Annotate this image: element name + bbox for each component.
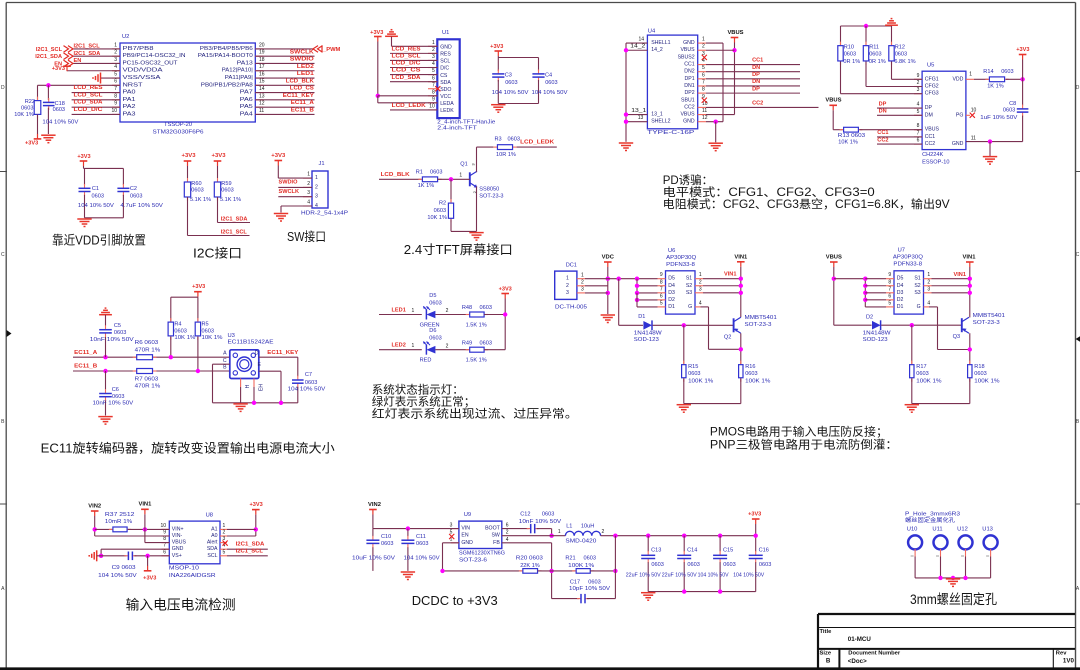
svg-text:R3: R3 — [495, 137, 502, 143]
svg-text:U5: U5 — [927, 63, 934, 69]
svg-text:G: G — [688, 304, 692, 310]
svg-text:+3V3: +3V3 — [143, 576, 156, 582]
svg-text:6: 6 — [660, 293, 663, 299]
svg-text:0R 1%: 0R 1% — [869, 59, 886, 65]
svg-text:LCD_BLK: LCD_BLK — [381, 172, 410, 178]
svg-text:R49: R49 — [462, 340, 472, 346]
svg-text:VIN2: VIN2 — [88, 504, 101, 510]
svg-text:5.1K 1%: 5.1K 1% — [190, 197, 211, 203]
svg-text:DN: DN — [752, 65, 760, 71]
svg-text:R22: R22 — [25, 99, 35, 105]
svg-text:电平模式：CFG1、CFG2、CFG3=0: 电平模式：CFG1、CFG2、CFG3=0 — [663, 186, 875, 199]
svg-text:10: 10 — [111, 108, 117, 114]
svg-text:18: 18 — [259, 57, 265, 63]
svg-text:PMOS电路用于输入电压防反接；: PMOS电路用于输入电压防反接； — [710, 424, 888, 438]
svg-text:U3: U3 — [228, 333, 235, 339]
svg-text:1: 1 — [566, 276, 569, 282]
svg-text:CC1: CC1 — [684, 62, 694, 68]
svg-text:I2C1_SDA: I2C1_SDA — [236, 542, 265, 548]
svg-text:DN1: DN1 — [684, 83, 694, 89]
svg-text:SBU1: SBU1 — [681, 97, 695, 103]
svg-text:R18: R18 — [974, 364, 984, 370]
svg-text:LCD_RES: LCD_RES — [74, 85, 103, 91]
svg-text:I2C1_SCL: I2C1_SCL — [74, 44, 101, 50]
svg-text:SOD-123: SOD-123 — [863, 337, 888, 343]
svg-text:0603: 0603 — [895, 51, 907, 57]
svg-text:8: 8 — [888, 279, 891, 285]
svg-text:DP1: DP1 — [685, 76, 695, 82]
svg-text:VIN-: VIN- — [172, 533, 183, 539]
svg-text:CC1: CC1 — [925, 134, 935, 140]
svg-text:U12: U12 — [957, 526, 968, 532]
svg-text:PA4: PA4 — [240, 111, 253, 117]
svg-text:13: 13 — [259, 93, 265, 99]
svg-text:1V0: 1V0 — [1063, 658, 1075, 665]
svg-text:S2: S2 — [686, 283, 692, 289]
svg-text:C3: C3 — [505, 72, 512, 78]
svg-text:GND: GND — [440, 45, 452, 51]
svg-text:D1: D1 — [668, 304, 675, 310]
svg-text:9: 9 — [917, 73, 920, 79]
svg-text:LCD_LEDK: LCD_LEDK — [520, 140, 554, 146]
svg-text:Q2: Q2 — [724, 334, 731, 340]
svg-text:1uF 10% 50V: 1uF 10% 50V — [980, 115, 1017, 121]
svg-text:R5: R5 — [202, 322, 209, 328]
svg-text:B: B — [826, 658, 831, 665]
svg-text:RES: RES — [440, 52, 451, 58]
svg-text:2: 2 — [432, 47, 435, 53]
svg-text:LCD_SDA: LCD_SDA — [392, 75, 421, 81]
svg-text:B: B — [223, 365, 227, 371]
svg-text:Q1: Q1 — [460, 162, 467, 168]
svg-text:CS: CS — [440, 73, 448, 79]
svg-text:GND: GND — [461, 540, 473, 546]
svg-text:5: 5 — [702, 65, 705, 71]
svg-text:2.4寸TFT屏幕接口: 2.4寸TFT屏幕接口 — [404, 242, 513, 257]
svg-text:2: 2 — [917, 80, 920, 86]
svg-text:5.1K 1%: 5.1K 1% — [220, 197, 241, 203]
svg-text:I2C1_SCL: I2C1_SCL — [236, 548, 264, 554]
svg-text:10R 1%: 10R 1% — [496, 152, 516, 158]
svg-text:S3: S3 — [914, 290, 920, 296]
svg-text:Title: Title — [820, 629, 833, 635]
svg-text:红灯表示系统出现过流、过压异常。: 红灯表示系统出现过流、过压异常。 — [372, 407, 578, 421]
svg-text:5: 5 — [917, 109, 920, 115]
svg-text:VDC: VDC — [602, 255, 615, 261]
svg-text:PA5: PA5 — [240, 104, 253, 110]
svg-text:10K 1%: 10K 1% — [427, 215, 447, 221]
svg-text:3: 3 — [315, 194, 318, 200]
svg-text:7: 7 — [660, 286, 663, 292]
svg-text:7: 7 — [702, 79, 705, 85]
svg-text:3: 3 — [699, 286, 702, 292]
svg-text:14: 14 — [259, 86, 265, 92]
svg-text:3: 3 — [581, 287, 584, 293]
svg-text:0603: 0603 — [723, 562, 735, 568]
svg-text:D5: D5 — [897, 276, 904, 282]
svg-text:D2: D2 — [866, 315, 873, 321]
svg-text:6: 6 — [114, 79, 117, 85]
svg-text:I2C1_SCL: I2C1_SCL — [36, 47, 63, 53]
svg-text:DP: DP — [879, 101, 887, 107]
svg-text:0603: 0603 — [53, 107, 65, 113]
svg-text:C5: C5 — [114, 323, 121, 329]
svg-text:R11: R11 — [869, 44, 879, 50]
svg-text:6: 6 — [888, 293, 891, 299]
svg-text:CC2: CC2 — [925, 141, 935, 147]
svg-text:+3V3: +3V3 — [748, 512, 761, 518]
svg-text:VIN1: VIN1 — [963, 255, 977, 261]
svg-text:CFG1: CFG1 — [925, 76, 939, 82]
svg-text:0603: 0603 — [1001, 69, 1013, 75]
svg-text:SOD-123: SOD-123 — [634, 337, 659, 343]
svg-text:EC11旋转编码器，旋转改变设置输出电源电流大小: EC11旋转编码器，旋转改变设置输出电源电流大小 — [41, 440, 336, 455]
svg-text:CC1: CC1 — [877, 130, 888, 136]
svg-text:+3V3: +3V3 — [25, 140, 38, 146]
svg-text:G: G — [917, 304, 921, 310]
svg-text:8: 8 — [163, 536, 166, 542]
svg-text:1: 1 — [432, 40, 435, 46]
svg-text:3: 3 — [566, 290, 569, 296]
svg-text:1: 1 — [558, 529, 561, 535]
svg-text:7: 7 — [163, 543, 166, 549]
svg-text:GND: GND — [172, 546, 184, 552]
svg-text:D2: D2 — [668, 297, 675, 303]
svg-text:0603: 0603 — [545, 80, 557, 86]
svg-text:LCD_CS: LCD_CS — [290, 86, 314, 92]
svg-text:EC11B15242AE: EC11B15242AE — [228, 340, 274, 346]
svg-text:10K 1%: 10K 1% — [174, 335, 195, 341]
svg-text:Q3: Q3 — [953, 334, 960, 340]
svg-text:D1: D1 — [897, 304, 904, 310]
svg-text:10: 10 — [160, 523, 166, 529]
svg-text:1.5K 1%: 1.5K 1% — [466, 323, 487, 329]
svg-text:0603: 0603 — [305, 380, 317, 386]
svg-text:0603: 0603 — [688, 371, 700, 377]
svg-text:5: 5 — [888, 300, 891, 306]
svg-text:0603: 0603 — [429, 336, 441, 342]
svg-text:0603: 0603 — [759, 562, 771, 568]
svg-text:10nF 10% 50V: 10nF 10% 50V — [93, 400, 134, 406]
svg-text:10: 10 — [429, 104, 435, 110]
svg-text:0603: 0603 — [651, 562, 663, 568]
svg-text:1: 1 — [459, 173, 462, 179]
svg-text:AP30P30Q: AP30P30Q — [893, 255, 924, 261]
svg-text:DCDC to +3V3: DCDC to +3V3 — [412, 593, 498, 608]
svg-text:22K 1%: 22K 1% — [520, 563, 540, 569]
svg-text:0603: 0603 — [508, 137, 520, 143]
svg-text:R15: R15 — [688, 364, 698, 370]
svg-text:4: 4 — [917, 102, 920, 108]
svg-text:C8: C8 — [1009, 101, 1016, 107]
svg-text:ESSOP-10: ESSOP-10 — [922, 160, 949, 166]
svg-text:1: 1 — [927, 272, 930, 278]
svg-text:Size: Size — [820, 651, 832, 657]
svg-text:17: 17 — [259, 64, 265, 70]
svg-text:R14: R14 — [983, 69, 993, 75]
svg-text:R6 0603: R6 0603 — [135, 340, 159, 346]
svg-text:5: 5 — [660, 300, 663, 306]
svg-text:8: 8 — [660, 279, 663, 285]
svg-text:01-MCU: 01-MCU — [848, 636, 872, 643]
svg-text:CFG2: CFG2 — [925, 84, 939, 90]
svg-text:VBUS: VBUS — [825, 98, 841, 104]
svg-text:4.7uF 10% 50V: 4.7uF 10% 50V — [120, 203, 163, 209]
svg-text:7: 7 — [917, 130, 920, 136]
svg-text:C: C — [1, 252, 5, 258]
svg-text:CC2: CC2 — [752, 101, 763, 107]
svg-text:PA11|PA9|: PA11|PA9| — [225, 75, 253, 81]
svg-text:10mR 1%: 10mR 1% — [105, 519, 132, 525]
svg-text:SOT-23-3: SOT-23-3 — [973, 320, 1000, 326]
svg-text:100K 1%: 100K 1% — [916, 379, 941, 385]
svg-text:1.5K 1%: 1.5K 1% — [466, 358, 487, 364]
svg-text:PC15-OSC32_OUT: PC15-OSC32_OUT — [123, 60, 179, 66]
svg-text:SW接口: SW接口 — [287, 229, 326, 244]
svg-text:0603: 0603 — [584, 555, 596, 561]
svg-text:2: 2 — [446, 343, 449, 349]
svg-text:10uH: 10uH — [581, 523, 594, 529]
svg-text:D4: D4 — [897, 283, 904, 289]
svg-text:2: 2 — [702, 44, 705, 50]
svg-text:SOT-23-6: SOT-23-6 — [459, 558, 487, 564]
svg-text:LED1: LED1 — [297, 71, 314, 77]
svg-text:104 10% 50V: 104 10% 50V — [42, 120, 78, 126]
svg-text:8: 8 — [432, 89, 435, 95]
svg-text:R20 0603: R20 0603 — [516, 555, 543, 561]
svg-text:EC11_B: EC11_B — [74, 364, 97, 370]
svg-text:PB3/PB4/PB5/PB6: PB3/PB4/PB5/PB6 — [200, 46, 253, 52]
svg-text:C7: C7 — [305, 372, 312, 378]
svg-text:EH: EH — [259, 384, 265, 391]
svg-text:LCD_SCL: LCD_SCL — [74, 92, 104, 98]
svg-text:9: 9 — [432, 96, 435, 102]
svg-text:D: D — [255, 350, 259, 356]
svg-text:470R 1%: 470R 1% — [135, 383, 161, 389]
svg-text:2: 2 — [307, 181, 310, 187]
svg-text:100K 1%: 100K 1% — [568, 563, 594, 569]
svg-text:0603: 0603 — [174, 328, 186, 334]
svg-text:D/C: D/C — [440, 66, 449, 72]
svg-text:1N4148W: 1N4148W — [863, 331, 892, 337]
svg-text:0603: 0603 — [869, 51, 881, 57]
svg-text:U11: U11 — [932, 526, 942, 532]
svg-text:SWCLK: SWCLK — [279, 189, 300, 195]
svg-text:CH224K: CH224K — [922, 152, 943, 158]
svg-text:GND: GND — [952, 141, 964, 147]
svg-text:输入电压电流检测: 输入电压电流检测 — [126, 597, 236, 612]
svg-text:0603: 0603 — [430, 170, 442, 176]
svg-text:3: 3 — [450, 522, 453, 528]
svg-text:0603: 0603 — [416, 541, 428, 547]
svg-text:I2C接口: I2C接口 — [193, 245, 242, 260]
svg-text:RED: RED — [420, 358, 432, 364]
svg-text:I2C1_SDA: I2C1_SDA — [35, 54, 62, 60]
svg-text:+3V3: +3V3 — [1016, 47, 1029, 53]
svg-text:4: 4 — [315, 203, 318, 209]
svg-text:SGM61230XTN6G: SGM61230XTN6G — [459, 551, 505, 557]
svg-text:8: 8 — [917, 123, 920, 129]
svg-text:4: 4 — [307, 199, 310, 205]
svg-text:2: 2 — [927, 279, 930, 285]
svg-text:0603: 0603 — [114, 330, 126, 336]
svg-text:SWCLK: SWCLK — [290, 49, 314, 55]
svg-text:HDR-2_54-1x4P: HDR-2_54-1x4P — [301, 211, 348, 217]
svg-text:0603: 0603 — [588, 579, 600, 585]
svg-text:SW: SW — [491, 533, 499, 539]
svg-text:A0: A0 — [211, 533, 217, 539]
svg-text:5: 5 — [223, 549, 226, 555]
svg-text:D: D — [1, 85, 5, 91]
svg-text:0603: 0603 — [429, 300, 441, 306]
svg-text:D: D — [1076, 85, 1080, 91]
svg-text:VBUS: VBUS — [680, 47, 695, 53]
svg-text:L1: L1 — [566, 523, 572, 529]
svg-text:11: 11 — [702, 108, 707, 114]
svg-text:22uF 10% 50V: 22uF 10% 50V — [662, 573, 697, 579]
svg-text:13: 13 — [638, 115, 644, 121]
svg-text:R2: R2 — [439, 201, 446, 207]
svg-text:0603: 0603 — [92, 194, 104, 200]
svg-text:EN: EN — [461, 533, 468, 539]
svg-text:4: 4 — [506, 537, 509, 543]
svg-text:+3V3: +3V3 — [52, 66, 65, 72]
svg-text:1: 1 — [307, 172, 310, 178]
svg-text:PB9/PC14-OSC32_IN: PB9/PC14-OSC32_IN — [123, 53, 186, 59]
svg-text:104 10% 50V: 104 10% 50V — [733, 573, 764, 579]
svg-text:D1: D1 — [638, 314, 645, 320]
svg-text:DN: DN — [752, 79, 760, 85]
svg-text:SWDIO: SWDIO — [279, 180, 299, 186]
svg-text:D2: D2 — [897, 297, 904, 303]
svg-text:0603: 0603 — [191, 187, 203, 193]
svg-text:R10: R10 — [844, 44, 854, 50]
svg-text:DP: DP — [925, 105, 933, 111]
svg-text:R13 0603: R13 0603 — [838, 133, 865, 139]
svg-text:VIN2: VIN2 — [368, 502, 381, 508]
svg-text:PA13: PA13 — [237, 60, 253, 66]
svg-text:U9: U9 — [464, 512, 471, 518]
svg-text:LED2: LED2 — [297, 64, 314, 70]
svg-text:U13: U13 — [982, 526, 993, 532]
svg-text:C4: C4 — [545, 72, 552, 78]
svg-text:C11: C11 — [416, 534, 426, 540]
svg-text:PDFN33-8: PDFN33-8 — [666, 262, 695, 268]
svg-text:VBUS: VBUS — [826, 254, 842, 260]
svg-text:10K 1%: 10K 1% — [14, 112, 34, 118]
svg-text:R1: R1 — [416, 170, 423, 176]
svg-text:VIN: VIN — [461, 526, 470, 532]
svg-text:SCL: SCL — [440, 59, 450, 65]
svg-text:A1: A1 — [211, 526, 217, 532]
svg-text:PA12|PA10|: PA12|PA10| — [222, 68, 253, 74]
svg-text:C15: C15 — [723, 548, 733, 554]
svg-text:H: H — [245, 384, 251, 388]
svg-text:3: 3 — [917, 87, 920, 93]
svg-text:104 10% 50V: 104 10% 50V — [698, 573, 729, 579]
svg-text:C16: C16 — [759, 548, 769, 554]
svg-text:VBUS: VBUS — [680, 112, 695, 118]
svg-text:+3V3: +3V3 — [249, 502, 262, 508]
svg-text:LCD_D/C: LCD_D/C — [392, 61, 421, 67]
svg-text:470R 1%: 470R 1% — [135, 348, 161, 354]
svg-text:10K 1%: 10K 1% — [202, 335, 223, 341]
svg-text:PA1: PA1 — [123, 97, 136, 103]
svg-text:U10: U10 — [907, 526, 918, 532]
svg-text:6: 6 — [163, 549, 166, 555]
svg-text:Document Number: Document Number — [848, 651, 901, 657]
svg-text:PNP三极管电路用于电流防倒灌：: PNP三极管电路用于电流防倒灌： — [710, 438, 898, 452]
svg-text:8: 8 — [702, 87, 705, 93]
svg-text:20: 20 — [259, 42, 265, 48]
svg-text:Alert: Alert — [207, 540, 218, 546]
svg-text:0603: 0603 — [974, 371, 986, 377]
svg-text:2: 2 — [446, 308, 449, 314]
svg-text:LCD_SCL: LCD_SCL — [392, 54, 422, 60]
svg-text:LCD_SDA: LCD_SDA — [74, 100, 103, 106]
svg-text:C: C — [223, 358, 227, 364]
svg-text:DM: DM — [925, 112, 933, 118]
svg-text:LEDK: LEDK — [440, 108, 454, 114]
svg-text:0603: 0603 — [130, 194, 142, 200]
svg-text:S3: S3 — [686, 290, 692, 296]
svg-text:TYPE-C-16P: TYPE-C-16P — [647, 130, 694, 136]
svg-text:+3V3: +3V3 — [370, 30, 383, 36]
svg-text:PA6: PA6 — [240, 97, 253, 103]
svg-text:0603: 0603 — [505, 80, 517, 86]
svg-text:U8: U8 — [206, 513, 213, 519]
svg-text:U1: U1 — [442, 30, 449, 36]
svg-text:LED1: LED1 — [392, 308, 406, 314]
svg-text:C13: C13 — [651, 548, 661, 554]
svg-text:8: 8 — [114, 93, 117, 99]
svg-text:1: 1 — [699, 272, 702, 278]
svg-text:+3V3: +3V3 — [271, 153, 285, 159]
svg-text:9: 9 — [660, 272, 663, 278]
svg-text:0603: 0603 — [381, 541, 393, 547]
svg-text:VSS/VSSA: VSS/VSSA — [123, 75, 162, 81]
svg-text:2: 2 — [699, 279, 702, 285]
svg-text:19: 19 — [259, 50, 265, 56]
svg-text:+3V3: +3V3 — [192, 284, 205, 290]
svg-text:CC1: CC1 — [752, 58, 763, 64]
svg-text:S1: S1 — [686, 276, 692, 282]
svg-text:SCL: SCL — [207, 553, 217, 559]
svg-text:U4: U4 — [648, 28, 656, 34]
svg-text:CC2: CC2 — [877, 137, 888, 143]
svg-text:0R 1%: 0R 1% — [843, 59, 860, 65]
svg-text:0603: 0603 — [221, 187, 233, 193]
svg-text:14_2: 14_2 — [651, 47, 663, 53]
svg-text:3: 3 — [114, 57, 117, 63]
svg-text:DN2: DN2 — [684, 69, 694, 75]
svg-text:VIN1: VIN1 — [138, 502, 152, 508]
svg-text:PA2: PA2 — [123, 104, 136, 110]
svg-text:D5: D5 — [668, 276, 675, 282]
svg-text:EC11_KEY: EC11_KEY — [267, 350, 298, 356]
svg-text:<Doc>: <Doc> — [848, 658, 867, 665]
svg-text:SHELL1: SHELL1 — [651, 40, 670, 46]
svg-text:0603: 0603 — [687, 562, 699, 568]
svg-text:3: 3 — [927, 286, 930, 292]
svg-text:R37 2512: R37 2512 — [105, 512, 134, 518]
svg-text:A: A — [223, 350, 227, 356]
svg-text:S2: S2 — [914, 283, 920, 289]
svg-text:4: 4 — [927, 300, 930, 306]
svg-text:9: 9 — [163, 530, 166, 536]
svg-text:SMD-0420: SMD-0420 — [565, 538, 596, 544]
svg-text:PD诱骗：: PD诱骗： — [663, 173, 713, 187]
